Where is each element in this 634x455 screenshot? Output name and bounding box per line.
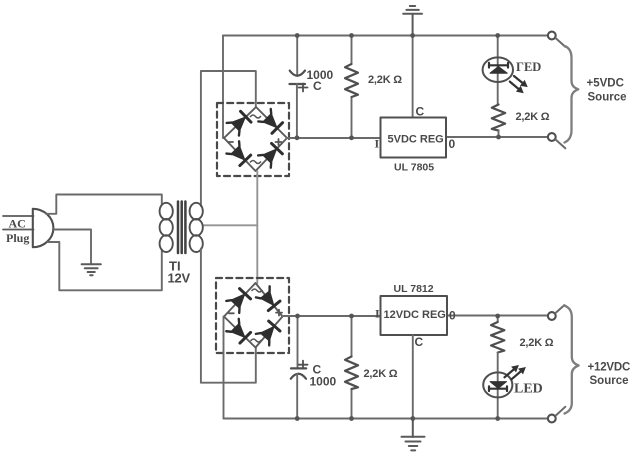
- bridge rectifier BR1 dashed box: [217, 103, 289, 176]
- capacitor C1 bottom lead: [296, 84, 298, 138]
- resistor R2 on LED1 branch: [492, 105, 505, 131]
- wire bottom ground rail: [224, 418, 549, 420]
- AC plug body: [33, 209, 54, 247]
- svg-text:+12VDC: +12VDC: [588, 362, 631, 374]
- wire top ground rail: [223, 35, 548, 37]
- wire U2 C pin down to ground rail: [412, 335, 414, 419]
- resistor R1 leads: [351, 36, 353, 139]
- bridge BR1 diamond: [224, 107, 287, 171]
- transformer T1 secondary loops: [190, 203, 203, 252]
- resistor R1 2.2K: [345, 64, 358, 97]
- wire plug top to transformer primary: [46, 195, 162, 214]
- capacitor C2 1000uF: [291, 368, 306, 378]
- wire center tap from secondary: [203, 224, 257, 226]
- terminal T1 top: [548, 32, 556, 40]
- ground plug: [82, 264, 101, 275]
- svg-text:2,2K Ω: 2,2K Ω: [520, 337, 554, 349]
- ground bottom: [402, 419, 425, 451]
- svg-text:12VDC REG: 12VDC REG: [384, 309, 446, 321]
- capacitor C1 top lead: [296, 36, 298, 77]
- svg-text:0: 0: [449, 309, 456, 323]
- wire secondary top to bridge1 AC top: [201, 71, 256, 206]
- LED2 circle: [483, 372, 512, 397]
- svg-text:+5VDC: +5VDC: [587, 78, 624, 90]
- svg-text:ΓED: ΓED: [516, 60, 541, 74]
- terminal T3: [548, 312, 556, 320]
- transformer T1 primary loops: [160, 203, 173, 252]
- resistor R3 leads: [351, 316, 353, 419]
- wire secondary bottom to bridge2 AC bottom: [201, 249, 256, 383]
- svg-text:C: C: [416, 105, 425, 119]
- brace +5VDC: [565, 46, 579, 143]
- svg-text:2,2K Ω: 2,2K Ω: [368, 74, 402, 86]
- LED1 triangle: [490, 67, 507, 74]
- transformer T1 core: [178, 202, 185, 254]
- wire bridge2 plus to regulator U2 input: [283, 315, 381, 317]
- capacitor C1 1000uF: [290, 71, 306, 84]
- wire bridge1 plus output to regulator input: [287, 137, 381, 139]
- diode D4: [258, 143, 283, 168]
- svg-text:1000: 1000: [310, 375, 337, 389]
- op-amp U1 5VDC regulator box: [381, 118, 447, 158]
- diode D6: [256, 286, 281, 311]
- bridge rectifier BR2 dashed box: [216, 278, 289, 353]
- resistor R4 on LED2 branch: [497, 316, 499, 322]
- svg-text:C: C: [313, 79, 322, 93]
- svg-text:2,2K Ω: 2,2K Ω: [364, 368, 398, 380]
- bridge BR2 diamond: [224, 283, 283, 348]
- svg-text:I: I: [375, 137, 380, 151]
- wire plug mid to ground: [53, 230, 91, 265]
- diode D2: [258, 109, 283, 134]
- capacitor C2 top lead: [297, 316, 299, 368]
- diode D8: [256, 320, 281, 345]
- LED1 arrows: [514, 76, 525, 85]
- BR1 minus mark: [229, 141, 234, 143]
- node center tap vertical between bridges: [256, 171, 258, 283]
- wire bridge2 minus down to ground rail: [223, 317, 225, 419]
- svg-text:Source: Source: [588, 92, 627, 104]
- svg-text:12V: 12V: [168, 271, 191, 286]
- capacitor C2 plus sign: [299, 361, 308, 369]
- svg-text:I: I: [375, 307, 380, 321]
- wire C pin of U1 up to ground rail: [412, 36, 414, 118]
- svg-text:0: 0: [449, 137, 456, 151]
- wire regulator U1 output to terminal: [446, 136, 548, 138]
- resistor R3 2.2K: [345, 357, 358, 390]
- LED2 branch wire: [497, 353, 499, 419]
- LED1 cathode bar: [489, 63, 508, 68]
- diode D7: [226, 319, 251, 344]
- AC plug prongs: [3, 216, 34, 230]
- BR1 tilde top: [251, 115, 261, 118]
- wire U2 output to terminal: [447, 315, 548, 317]
- BR1 tilde bottom: [251, 161, 261, 164]
- op-amp U2 12VDC regulator box: [381, 296, 448, 335]
- BR2 tilde bottom: [251, 339, 261, 342]
- svg-text:UL 7805: UL 7805: [394, 162, 434, 174]
- LED1 branch wire: [497, 36, 499, 105]
- terminal T4: [548, 415, 556, 423]
- diode D1: [227, 110, 252, 135]
- diode D5: [226, 288, 251, 313]
- svg-text:Source: Source: [590, 375, 629, 387]
- BR2 plus mark: [276, 310, 282, 316]
- svg-text:LED: LED: [514, 382, 543, 397]
- capacitor C2 bottom lead: [296, 374, 298, 419]
- LED1 circle: [483, 57, 513, 82]
- svg-text:C: C: [415, 335, 424, 349]
- svg-text:5VDC REG: 5VDC REG: [388, 134, 444, 146]
- wire plug bottom to primary bottom: [48, 242, 162, 290]
- ground top (inverted): [403, 6, 422, 36]
- BR1 plus mark: [276, 139, 282, 145]
- brace +12VDC: [564, 306, 579, 414]
- terminal T2: [548, 133, 556, 141]
- svg-text:UL 7812: UL 7812: [394, 283, 434, 295]
- LED2 arrows: [505, 368, 517, 378]
- capacitor C1 plus sign: [299, 84, 308, 92]
- svg-text:2,2K Ω: 2,2K Ω: [516, 111, 550, 123]
- wire rail down to bridge1 minus vertex: [222, 36, 224, 139]
- svg-text:AC: AC: [9, 217, 26, 231]
- diode D3: [226, 141, 251, 166]
- LED2 triangle: [490, 382, 507, 389]
- BR2 tilde top: [252, 289, 262, 292]
- BR2 minus mark: [229, 312, 234, 314]
- svg-text:Plug: Plug: [6, 231, 29, 245]
- LED2 cathode bar: [489, 386, 507, 391]
- node junction dots: [295, 33, 501, 421]
